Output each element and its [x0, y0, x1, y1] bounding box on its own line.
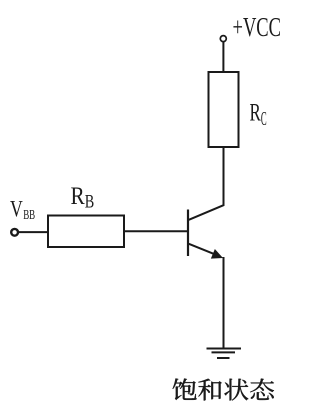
svg-text:R: R [250, 98, 262, 127]
wire VCC to RC [222, 42, 224, 72]
状 [224, 379, 248, 401]
wire emitter to ground [223, 257, 225, 349]
svg-text:R: R [71, 183, 85, 210]
node VBB terminal [11, 229, 18, 236]
resistor RB [48, 216, 124, 248]
wire base to RB [124, 230, 187, 232]
label 饱和状态 (caption) [173, 379, 274, 401]
transistor Q1 base bar [187, 210, 189, 257]
态 [250, 379, 274, 400]
node +VCC terminal [220, 36, 226, 42]
svg-text:BB: BB [23, 207, 35, 222]
ground [207, 349, 242, 359]
transistor Q1 emitter arrowhead [211, 249, 223, 259]
svg-text:B: B [85, 191, 95, 212]
svg-text:+VCC: +VCC [233, 12, 282, 42]
resistor RC [209, 72, 239, 147]
和 [198, 379, 221, 401]
transistor Q1 emitter [189, 244, 217, 255]
饱 [173, 379, 197, 401]
wire VBB to RB [19, 231, 48, 233]
svg-text:C: C [261, 109, 267, 130]
svg-text:V: V [10, 196, 23, 221]
wire RC to collector [189, 147, 224, 220]
